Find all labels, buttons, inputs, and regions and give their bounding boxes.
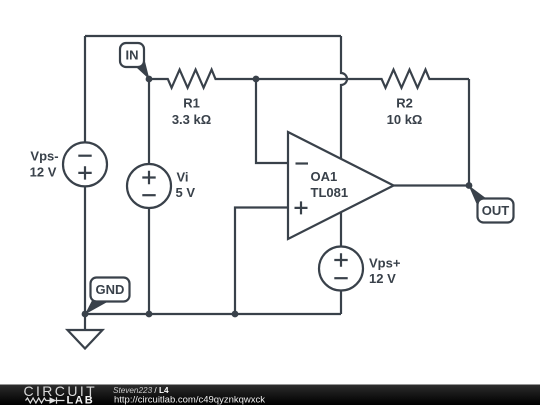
svg-text:OA1: OA1 bbox=[311, 169, 338, 184]
svg-text:TL081: TL081 bbox=[311, 185, 349, 200]
svg-text:OUT: OUT bbox=[482, 203, 510, 218]
junction node at IN bbox=[146, 76, 153, 83]
wire output bbox=[394, 184, 469, 186]
resistor R1 bbox=[149, 70, 256, 88]
svg-text:http://circuitlab.com/c49qyznk: http://circuitlab.com/c49qyznkqwxck bbox=[114, 394, 265, 405]
node GND flag bbox=[91, 278, 130, 302]
svg-text:LAB: LAB bbox=[67, 395, 95, 405]
svg-text:10 kΩ: 10 kΩ bbox=[387, 112, 423, 127]
voltage source Vi bbox=[127, 164, 171, 208]
wire left vertical upper (to Vps- top) bbox=[84, 36, 86, 142]
wire non-inverting input bbox=[235, 208, 288, 315]
footer logo resistor-diode glyph bbox=[26, 397, 65, 403]
junction node Vi/bottom rail bbox=[146, 311, 153, 318]
node OUT flag bbox=[478, 199, 514, 223]
svg-text:Vi: Vi bbox=[177, 170, 189, 185]
node GND flag pointer bbox=[85, 301, 110, 315]
wire output vertical bbox=[468, 79, 470, 186]
svg-text:Vps+: Vps+ bbox=[369, 255, 401, 270]
footer bar bbox=[0, 385, 540, 405]
ground symbol bbox=[84, 314, 86, 330]
svg-text:12 V: 12 V bbox=[369, 271, 396, 286]
wire inverting input bbox=[256, 79, 288, 163]
node IN flag pointer bbox=[134, 58, 150, 79]
junction node plus-input/bottom rail bbox=[232, 311, 239, 318]
node IN flag bbox=[120, 43, 144, 67]
svg-text:R1: R1 bbox=[183, 96, 200, 111]
svg-text:R2: R2 bbox=[396, 96, 413, 111]
wire Vps+ bottom lead bbox=[340, 291, 342, 314]
wire top rail bbox=[85, 35, 341, 37]
node OUT flag pointer bbox=[469, 185, 489, 206]
voltage source Vps+ bbox=[319, 247, 363, 291]
svg-text:12 V: 12 V bbox=[30, 165, 57, 180]
wire Vps+ top lead to op-amp V+ pin bbox=[340, 212, 342, 247]
svg-text:Vps-: Vps- bbox=[30, 149, 58, 164]
svg-text:3.3 kΩ: 3.3 kΩ bbox=[172, 112, 211, 127]
wire V- supply drop with hop over feedback wire bbox=[341, 36, 347, 159]
voltage source Vps- bbox=[63, 142, 107, 186]
junction node OUT bbox=[466, 182, 473, 189]
op-amp minus input marker bbox=[296, 162, 309, 164]
svg-text:IN: IN bbox=[126, 48, 139, 63]
wire left vertical lower (Vps- bottom to GND) bbox=[84, 186, 86, 314]
junction node R1/R2/inverting input bbox=[253, 76, 260, 83]
wire bottom rail bbox=[85, 313, 341, 315]
svg-text:5 V: 5 V bbox=[176, 185, 196, 200]
wire Vi bottom lead bbox=[148, 208, 150, 314]
junction node GND bbox=[82, 311, 89, 318]
resistor R2 (with feedback wire) bbox=[256, 70, 469, 88]
svg-text:GND: GND bbox=[96, 282, 125, 297]
op-amp plus input marker bbox=[295, 201, 308, 214]
op-amp OA1 bbox=[288, 132, 394, 239]
wire Vi top lead bbox=[148, 79, 150, 164]
